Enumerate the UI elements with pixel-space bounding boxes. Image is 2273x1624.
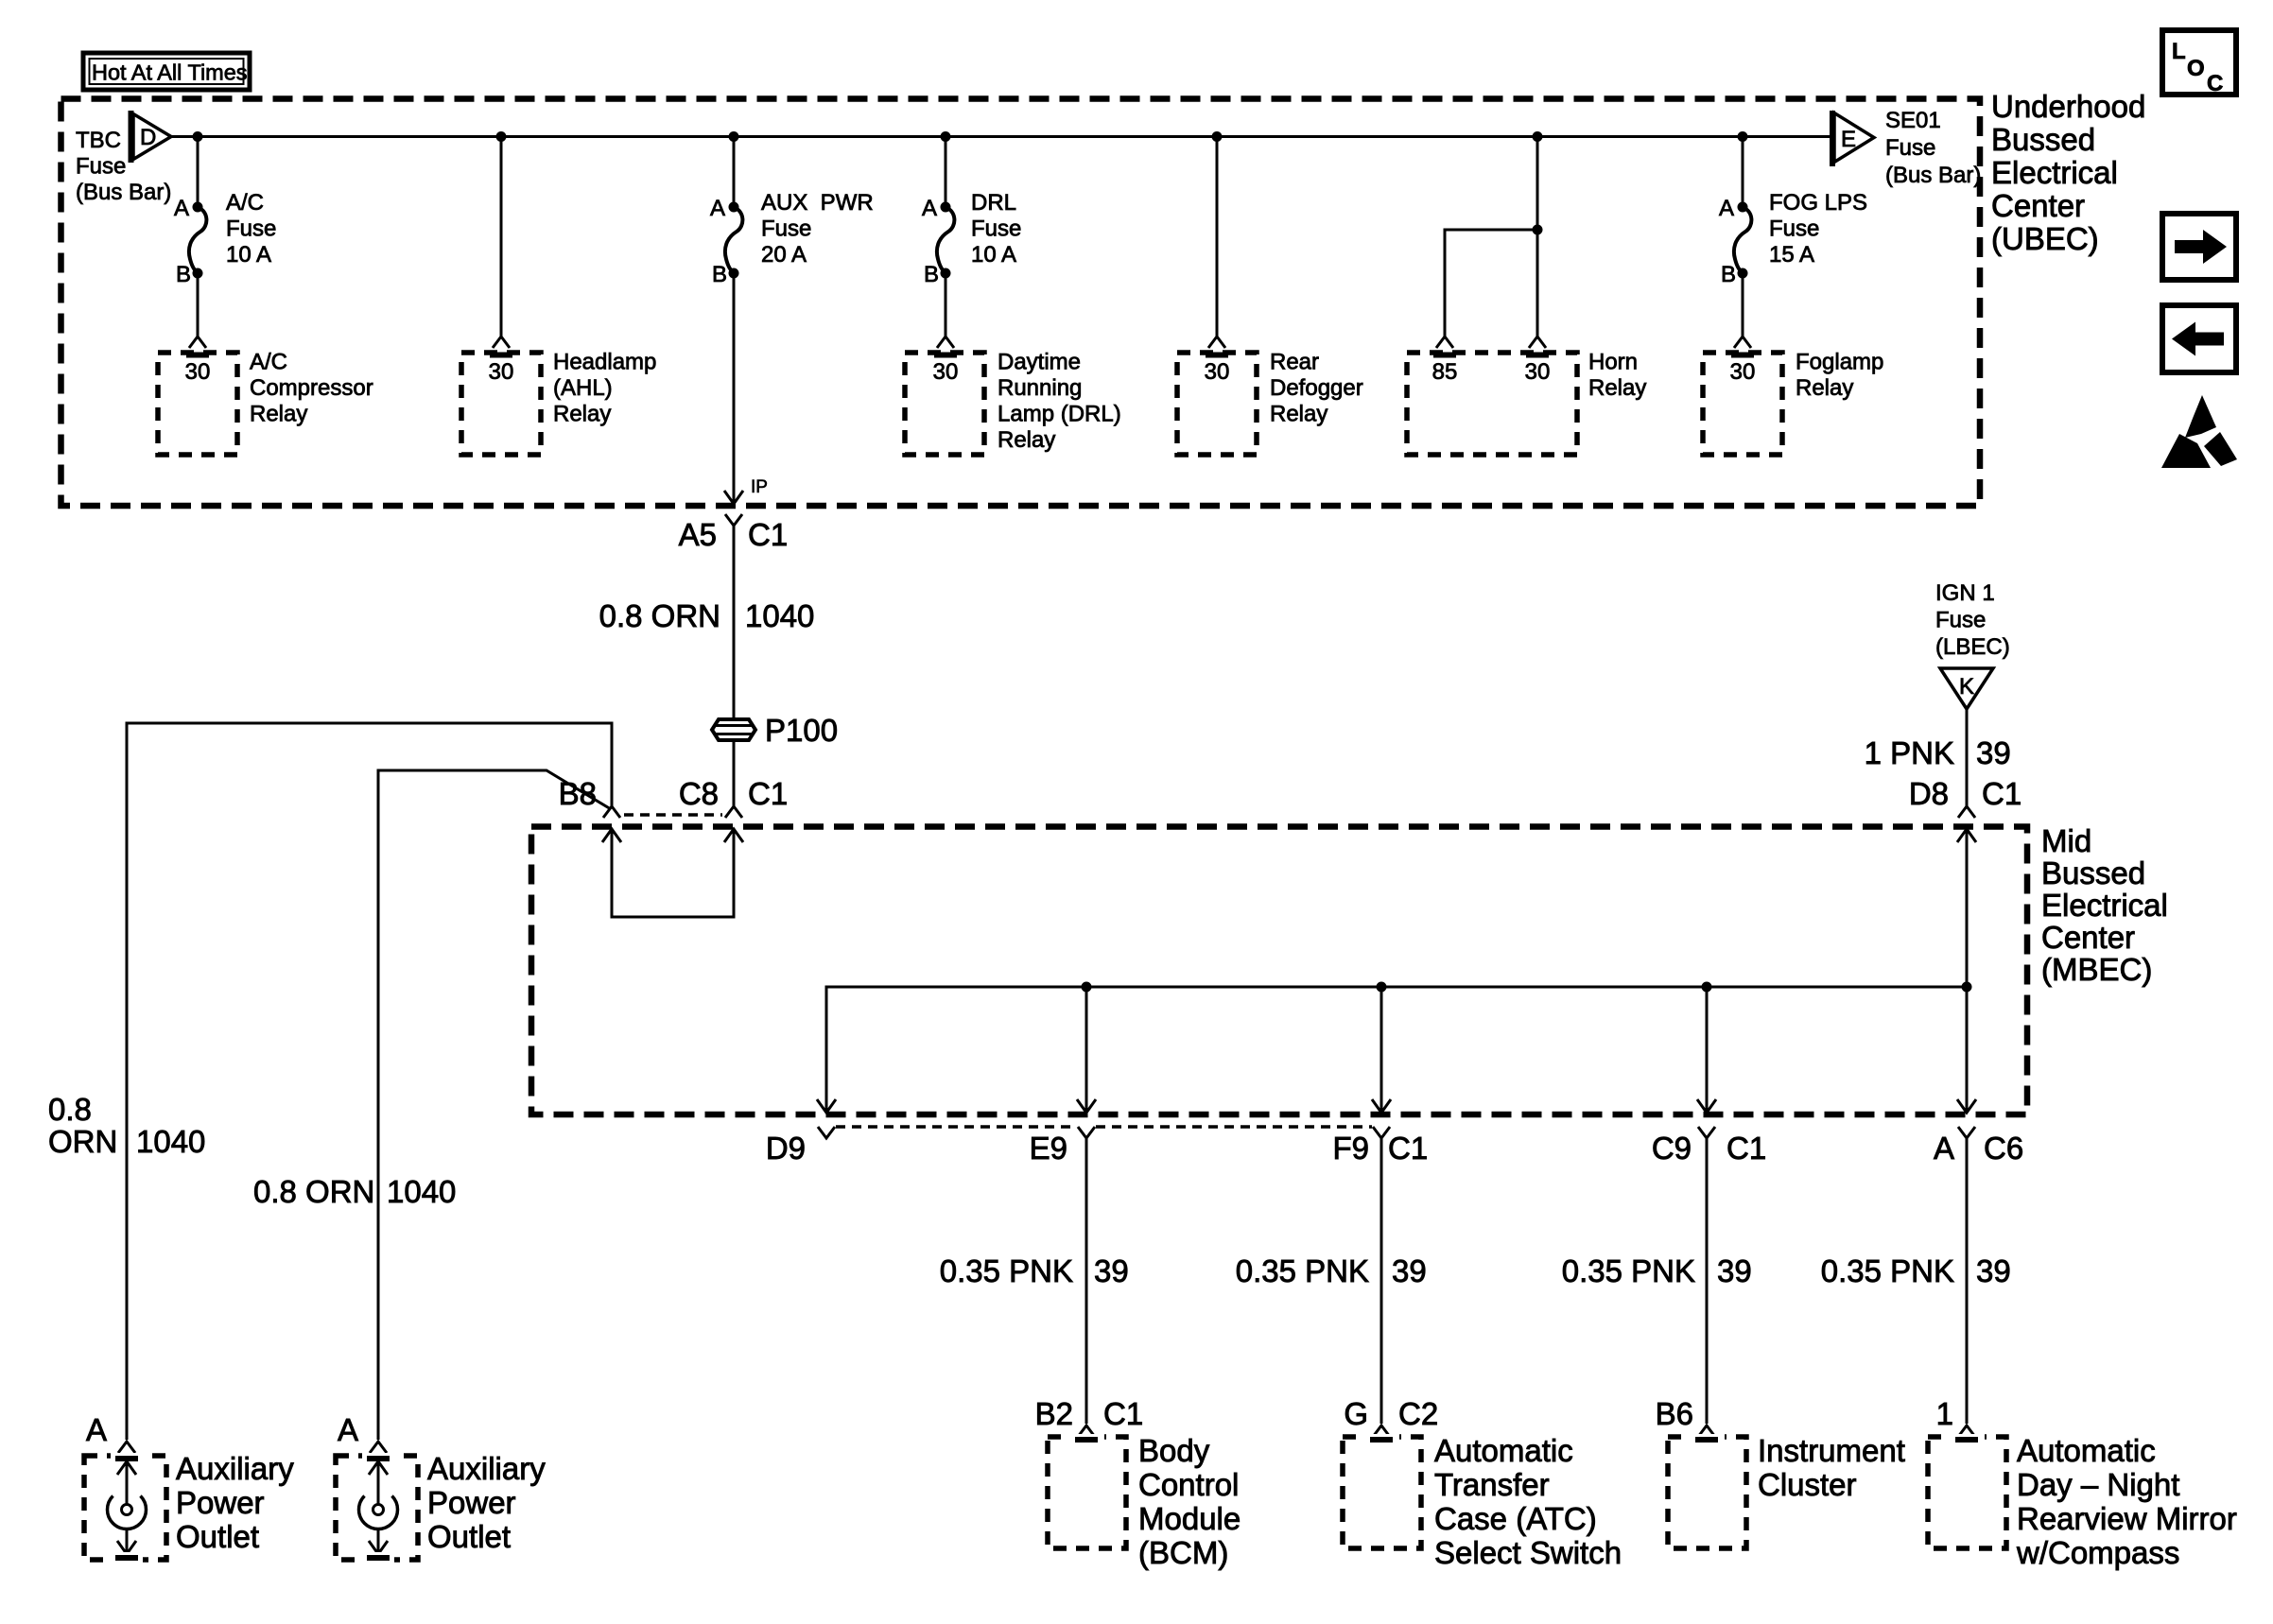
svg-text:K: K: [1959, 674, 1974, 700]
svg-text:Control: Control: [1138, 1467, 1239, 1502]
svg-text:ORN: ORN: [48, 1124, 117, 1159]
label: 0.8 ORN 1040 (outlet 1): [48, 1092, 205, 1159]
svg-text:Fuse: Fuse: [76, 154, 126, 180]
svg-text:P100: P100: [765, 713, 838, 748]
wire: bus drop to E9: [1085, 987, 1088, 1112]
wire: bus drop to C9: [1706, 987, 1709, 1112]
wire: bus to A/C fuse: [197, 137, 200, 208]
connector pin C9 of C1 (exit arrow): [1652, 1099, 1766, 1166]
svg-text:E9: E9: [1030, 1131, 1067, 1166]
terminal 30 of DRL Relay: [926, 337, 965, 385]
svg-text:A/C: A/C: [250, 350, 287, 375]
junction on bus at A/C fuse: [193, 131, 203, 142]
svg-text:0.8 ORN: 0.8 ORN: [599, 598, 720, 633]
svg-text:(LBEC): (LBEC): [1935, 634, 2010, 660]
svg-text:0.8 ORN: 0.8 ORN: [253, 1174, 374, 1209]
junction at F9 drop: [1377, 982, 1387, 993]
svg-text:1040: 1040: [387, 1174, 456, 1209]
wire: main bus (hot at all times): [172, 135, 1830, 138]
svg-text:(UBEC): (UBEC): [1991, 221, 2099, 256]
svg-text:IGN 1: IGN 1: [1935, 580, 1995, 606]
fuse: DRL Fuse 10 A (pins A,B): [922, 196, 954, 287]
svg-text:FOG LPS: FOG LPS: [1769, 190, 1867, 216]
svg-text:B: B: [1721, 262, 1736, 287]
fuse: FOG LPS Fuse 15 A (pins A,B): [1719, 196, 1751, 287]
svg-text:10 A: 10 A: [971, 242, 1016, 268]
svg-text:Rearview Mirror: Rearview Mirror: [2017, 1501, 2237, 1536]
svg-text:20 A: 20 A: [761, 242, 807, 268]
wire: D8 into MBEC internal bus: [1957, 829, 1976, 987]
svg-text:Electrical: Electrical: [2041, 888, 2168, 923]
svg-text:Fuse: Fuse: [761, 216, 811, 242]
MBEC box (Mid Bussed Electrical Center): [531, 827, 2027, 1115]
connector pin C8 of C1 (half arrow): [679, 776, 788, 818]
svg-text:A: A: [710, 196, 725, 221]
svg-text:Relay: Relay: [250, 402, 307, 427]
svg-text:Fuse: Fuse: [226, 216, 276, 242]
component: Auxiliary Power Outlet 2 (pin A): [336, 1412, 546, 1563]
svg-text:A5: A5: [679, 517, 717, 552]
svg-text:B6: B6: [1656, 1396, 1693, 1431]
svg-text:10 A: 10 A: [226, 242, 271, 268]
junction on bus at FOG LPS fuse: [1738, 131, 1748, 142]
svg-text:C: C: [2207, 71, 2223, 96]
relay: Headlamp (AHL) Relay: [461, 350, 656, 456]
svg-text:Select Switch: Select Switch: [1434, 1535, 1622, 1570]
junction on bus at rear defogger relay drop: [1212, 131, 1223, 142]
terminal 30 of A/C Compressor Relay: [178, 337, 217, 385]
svg-text:Center: Center: [1991, 188, 2085, 223]
fuse: AUX PWR Fuse 20 A (pins A,B): [710, 196, 742, 287]
label: 1 PNK 39: [1865, 735, 2011, 770]
svg-text:Fuse: Fuse: [971, 216, 1021, 242]
junction on bus at AUX PWR fuse: [729, 131, 739, 142]
component: Automatic Transfer Case (ATC) Select Switch, pin G of C2: [1343, 1396, 1622, 1570]
connector pin B8 of C1 (half arrow): [559, 776, 620, 818]
connector pin D9 of C1 (exit arrow): [766, 1099, 836, 1166]
svg-text:Fuse: Fuse: [1885, 135, 1935, 161]
svg-text:Outlet: Outlet: [176, 1519, 259, 1554]
wire: bus to FOG LPS fuse: [1742, 137, 1744, 208]
svg-text:C2: C2: [1398, 1396, 1438, 1431]
svg-text:Relay: Relay: [1270, 402, 1327, 427]
wire: P100 to MBEC C8: [733, 740, 736, 806]
svg-text:(BCM): (BCM): [1138, 1535, 1228, 1570]
svg-text:Auxiliary: Auxiliary: [427, 1451, 546, 1486]
svg-text:Bussed: Bussed: [1991, 122, 2095, 157]
connector pin A5 of C1 (half arrow): [679, 514, 789, 552]
connector pin D8 of C1 (half arrow): [1909, 776, 2021, 818]
svg-text:D: D: [140, 125, 156, 150]
label: 0.35 PNK 39 (ATC): [1236, 1253, 1427, 1288]
bus bar feed D (TBC Fuse): [129, 111, 172, 163]
svg-text:Relay: Relay: [553, 402, 611, 427]
svg-text:Daytime: Daytime: [998, 350, 1081, 375]
svg-text:F9: F9: [1332, 1131, 1369, 1166]
svg-text:A: A: [338, 1412, 358, 1447]
svg-text:C1: C1: [1103, 1396, 1143, 1431]
svg-text:C1: C1: [748, 517, 788, 552]
svg-text:Foglamp: Foglamp: [1796, 350, 1883, 375]
label: 0.35 PNK 39 (BCM): [940, 1253, 1129, 1288]
svg-text:Running: Running: [998, 375, 1082, 401]
svg-text:AUX PWR: AUX PWR: [761, 190, 874, 216]
relay: Daytime Running Lamp (DRL) Relay: [905, 350, 1121, 456]
svg-text:0.35 PNK: 0.35 PNK: [1236, 1253, 1369, 1288]
label: Mid Bussed Electrical Center (MBEC): [2041, 823, 2168, 987]
svg-text:Underhood: Underhood: [1991, 89, 2145, 124]
svg-text:Automatic: Automatic: [1434, 1433, 1573, 1468]
svg-text:w/Compass: w/Compass: [2016, 1535, 2179, 1570]
svg-text:Instrument: Instrument: [1758, 1433, 1905, 1468]
wire: auxiliary power outlet 2 feed (B8 to outlet): [378, 770, 611, 1440]
svg-text:0.35 PNK: 0.35 PNK: [1821, 1253, 1954, 1288]
svg-text:B: B: [924, 262, 939, 287]
svg-text:Module: Module: [1138, 1501, 1241, 1536]
svg-text:Headlamp: Headlamp: [553, 350, 656, 375]
svg-text:Horn: Horn: [1588, 350, 1638, 375]
svg-text:30: 30: [933, 359, 959, 385]
svg-text:30: 30: [1730, 359, 1756, 385]
svg-text:D8: D8: [1909, 776, 1949, 811]
wire: bus to horn relay terminal 30: [1536, 137, 1539, 337]
component: Body Control Module (BCM), pin B2 of C1: [1035, 1396, 1241, 1570]
icon: arrow left box: [2162, 305, 2236, 372]
icon: ESD warning symbol: [2161, 395, 2237, 468]
svg-text:SE01: SE01: [1885, 108, 1941, 133]
svg-text:1040: 1040: [745, 598, 814, 633]
svg-text:Mid: Mid: [2041, 823, 2091, 858]
svg-text:39: 39: [1392, 1253, 1427, 1288]
wire: 0.35 PNK 39 (C9 to instrument cluster): [1706, 1138, 1709, 1424]
label: AUX PWR Fuse 20 A: [761, 190, 874, 268]
svg-text:1: 1: [1936, 1396, 1953, 1431]
label: DRL Fuse 10 A: [971, 190, 1021, 268]
svg-text:30: 30: [489, 359, 514, 385]
svg-text:0.35 PNK: 0.35 PNK: [1562, 1253, 1695, 1288]
connector IP: arrow into UBEC edge: [724, 477, 768, 504]
svg-text:Compressor: Compressor: [250, 375, 373, 401]
junction at C9 drop: [1702, 982, 1712, 993]
svg-text:Bussed: Bussed: [2041, 855, 2145, 890]
connector pin A of C6 (exit arrow): [1934, 1099, 2023, 1166]
svg-text:Outlet: Outlet: [427, 1519, 511, 1554]
svg-text:Electrical: Electrical: [1991, 155, 2118, 190]
svg-text:E: E: [1841, 127, 1856, 152]
svg-text:Cluster: Cluster: [1758, 1467, 1857, 1502]
svg-text:0.35 PNK: 0.35 PNK: [940, 1253, 1073, 1288]
terminal 85 of Horn Relay: [1425, 337, 1465, 385]
wire: MBEC internal ignition bus: [826, 987, 1967, 1112]
icon: arrow right box: [2162, 214, 2236, 280]
svg-text:(Bus Bar): (Bus Bar): [76, 180, 171, 205]
connector pin E9 of C1 (exit arrow): [1030, 1099, 1096, 1166]
label: TBC Fuse (Bus Bar): [76, 128, 171, 205]
terminal 30 of Headlamp (AHL) Relay: [481, 337, 521, 385]
svg-text:B: B: [176, 262, 191, 287]
svg-text:Transfer: Transfer: [1434, 1467, 1550, 1502]
connector pin F9 of C1 (exit arrow): [1332, 1099, 1428, 1166]
wire: auxiliary power outlet 1 feed (B8 to outlet): [127, 723, 612, 1440]
svg-text:(AHL): (AHL): [553, 375, 613, 401]
svg-text:Case (ATC): Case (ATC): [1434, 1501, 1597, 1536]
svg-text:A: A: [1719, 196, 1734, 221]
bus bar feed K (IGN 1 Fuse): [1940, 668, 1993, 709]
wire: A/C fuse to relay terminal: [197, 273, 200, 337]
svg-text:Relay: Relay: [998, 427, 1055, 453]
component: Auxiliary Power Outlet 1 (pin A): [84, 1412, 294, 1563]
label: 0.8 ORN 1040 (outlet 2): [253, 1174, 456, 1209]
label: Underhood Bussed Electrical Center (UBEC): [1991, 89, 2145, 256]
svg-text:39: 39: [1976, 1253, 2011, 1288]
label: 0.35 PNK 39 (cluster): [1562, 1253, 1752, 1288]
svg-text:C6: C6: [1984, 1131, 2023, 1166]
label: FOG LPS Fuse 15 A: [1769, 190, 1867, 268]
bus bar feed E (SE01 Fuse): [1830, 111, 1874, 166]
wire: branch to horn relay terminal 85: [1445, 230, 1537, 337]
wire: 0.35 PNK 39 (F9 to ATC select switch): [1380, 1138, 1383, 1424]
svg-text:A: A: [174, 196, 189, 221]
wire: FOG LPS fuse to relay terminal: [1742, 273, 1744, 337]
junction at A drop: [1962, 982, 1972, 993]
svg-text:15 A: 15 A: [1769, 242, 1814, 268]
relay: Foglamp Relay: [1703, 350, 1883, 456]
svg-text:C1: C1: [1726, 1131, 1766, 1166]
wire: DRL fuse to relay terminal: [945, 273, 947, 337]
svg-text:Automatic: Automatic: [2017, 1433, 2156, 1468]
svg-text:(MBEC): (MBEC): [2041, 952, 2152, 987]
svg-text:30: 30: [185, 359, 211, 385]
svg-text:39: 39: [1094, 1253, 1129, 1288]
connector C1 body (dashed) D9 to F9: [836, 1125, 1372, 1129]
svg-text:C1: C1: [748, 776, 788, 811]
svg-text:TBC: TBC: [76, 128, 121, 153]
label: 0.8 ORN 1040: [599, 598, 815, 633]
wire: 0.8 ORN 1040 (A5 to P100): [733, 526, 736, 718]
junction at horn relay branch: [1533, 225, 1543, 235]
svg-text:Fuse: Fuse: [1769, 216, 1819, 242]
terminal 30 of Rear Defogger Relay: [1197, 337, 1237, 385]
icon: LOC reference box: [2162, 30, 2236, 96]
svg-text:B8: B8: [559, 776, 597, 811]
svg-text:Power: Power: [427, 1485, 516, 1520]
wire: MBEC internal link B8 to C8 (U loop): [602, 829, 743, 917]
svg-text:A: A: [86, 1412, 107, 1447]
svg-text:Rear: Rear: [1270, 350, 1319, 375]
junction on bus at horn relay drop: [1533, 131, 1543, 142]
svg-text:B2: B2: [1035, 1396, 1073, 1431]
svg-text:Auxiliary: Auxiliary: [176, 1451, 294, 1486]
fuse: A/C Fuse 10 A (pins A,B): [174, 196, 206, 287]
wire: AUX PWR fuse to IP connector: [733, 273, 736, 504]
svg-text:IP: IP: [751, 477, 768, 497]
wire: bus to Rear Defogger relay: [1216, 137, 1219, 337]
svg-text:0.8: 0.8: [48, 1092, 92, 1127]
wire: bus to AUX PWR fuse: [733, 137, 736, 208]
svg-text:Center: Center: [2041, 920, 2135, 955]
label: Hot At All Times: [83, 53, 250, 90]
svg-text:C9: C9: [1652, 1131, 1692, 1166]
svg-text:DRL: DRL: [971, 190, 1016, 216]
wire: bus drop to A: [1966, 987, 1969, 1112]
svg-text:1040: 1040: [136, 1124, 205, 1159]
svg-text:1 PNK: 1 PNK: [1865, 735, 1954, 770]
relay: Horn Relay: [1407, 350, 1646, 456]
svg-text:C8: C8: [679, 776, 719, 811]
svg-text:Lamp (DRL): Lamp (DRL): [998, 402, 1121, 427]
wire: 0.35 PNK 39 (E9 to BCM): [1085, 1138, 1088, 1424]
svg-text:G: G: [1344, 1396, 1368, 1431]
junction at E9 drop: [1082, 982, 1092, 993]
relay: Rear Defogger Relay: [1177, 350, 1363, 456]
wire: 0.35 PNK 39 (A to rearview mirror): [1966, 1138, 1969, 1424]
wire: 1 PNK 39 (K to D8): [1966, 709, 1969, 806]
svg-text:85: 85: [1432, 359, 1458, 385]
svg-text:B: B: [712, 262, 727, 287]
svg-text:C1: C1: [1982, 776, 2021, 811]
label: SE01 Fuse (Bus Bar): [1885, 108, 1981, 188]
svg-text:C1: C1: [1388, 1131, 1428, 1166]
svg-text:Power: Power: [176, 1485, 265, 1520]
svg-text:Fuse: Fuse: [1935, 608, 1986, 633]
wire: bus to Headlamp relay: [500, 137, 503, 337]
svg-text:39: 39: [1976, 735, 2011, 770]
svg-text:Relay: Relay: [1796, 375, 1853, 401]
wire: bus drop to F9: [1380, 987, 1383, 1112]
svg-text:Body: Body: [1138, 1433, 1210, 1468]
label: IGN 1 Fuse (LBEC): [1935, 580, 2010, 660]
svg-text:Day – Night: Day – Night: [2017, 1467, 2179, 1502]
svg-text:(Bus Bar): (Bus Bar): [1885, 163, 1981, 188]
svg-text:39: 39: [1717, 1253, 1752, 1288]
svg-text:Defogger: Defogger: [1270, 375, 1363, 401]
UBEC box (Underhood Bussed Electrical Center): [61, 99, 1981, 507]
svg-text:Hot At All Times: Hot At All Times: [92, 60, 248, 85]
svg-text:A: A: [922, 196, 937, 221]
terminal 30 of Foglamp Relay: [1723, 337, 1762, 385]
pass-through grommet P100: [712, 713, 838, 748]
svg-text:O: O: [2187, 56, 2205, 81]
svg-text:A/C: A/C: [226, 190, 264, 216]
wire: bus to DRL fuse: [945, 137, 947, 208]
svg-text:A: A: [1934, 1131, 1954, 1166]
connector C1 body (dashed) between B8 and C8: [624, 813, 722, 817]
svg-text:D9: D9: [766, 1131, 806, 1166]
relay: A/C Compressor Relay: [158, 350, 373, 456]
junction on bus at headlamp relay drop: [496, 131, 507, 142]
terminal 30 of Horn Relay: [1518, 337, 1557, 385]
svg-text:Relay: Relay: [1588, 375, 1646, 401]
label: 0.35 PNK 39 (mirror): [1821, 1253, 2011, 1288]
junction on bus at DRL fuse: [941, 131, 951, 142]
svg-text:30: 30: [1205, 359, 1230, 385]
component: Automatic Day-Night Rearview Mirror w/Compass, pin 1: [1928, 1396, 2237, 1570]
svg-text:L: L: [2172, 39, 2186, 64]
label: A/C Fuse 10 A: [226, 190, 276, 268]
svg-text:30: 30: [1525, 359, 1551, 385]
component: Instrument Cluster, pin B6: [1656, 1396, 1905, 1548]
